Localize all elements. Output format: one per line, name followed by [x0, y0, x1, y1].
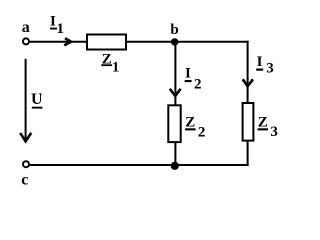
node a label: [22, 19, 30, 36]
wire b to right branch down: [247, 41, 249, 104]
impedance Z1: [87, 35, 126, 50]
svg-text:2: 2: [194, 77, 202, 93]
junction Z2/bottom wire: [171, 162, 179, 170]
svg-text:Z: Z: [185, 114, 195, 130]
label I1: [50, 14, 64, 37]
svg-text:1: 1: [112, 60, 120, 76]
current arrow I3: [243, 79, 253, 86]
wire a to Z1: [30, 41, 89, 43]
current arrow I1: [64, 38, 71, 45]
wire b down to Z2: [174, 42, 176, 106]
impedance Z3: [243, 103, 254, 141]
svg-text:I: I: [185, 66, 191, 82]
impedance Z2: [168, 105, 180, 142]
svg-text:2: 2: [198, 124, 206, 140]
bottom wire: [30, 164, 249, 166]
label I3: [256, 54, 274, 76]
svg-text:3: 3: [270, 124, 278, 140]
svg-text:U: U: [31, 91, 43, 108]
svg-text:c: c: [21, 171, 28, 188]
current arrow I2: [170, 89, 181, 96]
terminal a: [23, 38, 29, 44]
wire Z2 to bottom junction: [174, 143, 176, 166]
svg-text:a: a: [22, 19, 30, 36]
label Z2: [185, 114, 205, 140]
svg-text:Z: Z: [258, 114, 268, 130]
label Z3: [258, 114, 278, 140]
svg-text:b: b: [170, 22, 178, 38]
label U: [31, 91, 43, 109]
label I2: [185, 66, 202, 93]
junction b: [171, 38, 178, 45]
svg-text:1: 1: [57, 21, 65, 37]
node c label: [21, 171, 28, 188]
terminal c: [23, 161, 29, 167]
voltage arrow U: [20, 59, 31, 142]
svg-text:I: I: [50, 14, 56, 30]
wire Z1 to top-right corner: [125, 41, 249, 43]
svg-text:I: I: [257, 54, 263, 70]
label Z1: [101, 51, 119, 75]
svg-text:3: 3: [266, 61, 274, 77]
wire Z3 to bottom wire: [247, 142, 249, 166]
node b label: [170, 22, 178, 38]
